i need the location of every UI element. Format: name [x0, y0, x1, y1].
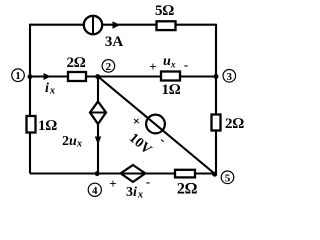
- svg-text:x: x: [137, 190, 143, 201]
- svg-text:2Ω: 2Ω: [225, 116, 245, 132]
- svg-text:1Ω: 1Ω: [161, 82, 181, 98]
- 3A direction arrow: [113, 21, 121, 28]
- junction node 2 dot: [95, 74, 100, 79]
- wire middle horizontal node1-node2-node3: [30, 75, 216, 77]
- svg-text:5: 5: [225, 172, 231, 184]
- wire right (x=216): [215, 24, 217, 175]
- svg-text:2Ω: 2Ω: [66, 55, 86, 71]
- junction node 1 dot: [28, 74, 33, 79]
- node label 4: [88, 183, 101, 197]
- resistor 2Ω (node1-node2): [68, 72, 86, 81]
- current source 3A (circle with bar): [84, 16, 102, 34]
- resistor 2Ω (bottom, node4-node5): [175, 170, 195, 178]
- resistor 2Ω (right branch): [212, 115, 221, 131]
- arrow i_x: [44, 73, 51, 80]
- svg-text:x: x: [170, 60, 176, 70]
- wire top (node1 corner to node3 corner): [30, 24, 216, 26]
- svg-text:4: 4: [92, 185, 98, 197]
- node label 1: [12, 69, 25, 82]
- junction node 3 dot: [214, 74, 219, 79]
- node label 5: [221, 171, 234, 184]
- svg-text:5Ω: 5Ω: [155, 3, 175, 19]
- svg-text:2Ω: 2Ω: [177, 181, 197, 198]
- svg-text:-: -: [184, 57, 188, 72]
- wire bottom node4-node5: [30, 172, 215, 174]
- svg-text:x: x: [49, 86, 55, 97]
- node label 3: [223, 70, 236, 83]
- svg-text:+: +: [149, 59, 156, 74]
- junction node 4 dot: [95, 171, 100, 176]
- dependent voltage source 3i_x (diamond on bottom wire): [121, 165, 146, 182]
- svg-text:1Ω: 1Ω: [38, 118, 58, 134]
- resistor 1Ω (node2-node3): [161, 72, 180, 81]
- dependent current source 2u_x (diamond with bar): [90, 102, 106, 125]
- junction node 5 dot: [212, 172, 217, 177]
- node label 2: [102, 60, 115, 73]
- svg-text:2: 2: [106, 61, 112, 73]
- voltage source 10V (circle on diagonal): [146, 115, 165, 134]
- wire vertical node2-node4: [97, 77, 99, 174]
- svg-text:1: 1: [15, 70, 21, 82]
- svg-text:x: x: [76, 139, 82, 150]
- svg-text:3: 3: [126, 185, 133, 200]
- svg-text:i: i: [133, 185, 137, 200]
- svg-text:u: u: [69, 134, 77, 149]
- svg-text:2: 2: [62, 134, 69, 149]
- svg-text:3: 3: [227, 71, 233, 83]
- svg-text:3A: 3A: [105, 34, 124, 50]
- svg-text:u: u: [163, 54, 171, 69]
- svg-text:i: i: [45, 81, 49, 96]
- wire diagonal node2-node5: [98, 77, 215, 175]
- wire left (x=30, top corner down to bottom corner): [29, 24, 31, 174]
- 2u_x direction arrow (down): [95, 137, 101, 145]
- resistor 5Ω: [157, 21, 176, 30]
- svg-text:-: -: [146, 174, 150, 189]
- resistor 1Ω (left branch): [27, 116, 36, 133]
- svg-text:+: +: [109, 176, 116, 191]
